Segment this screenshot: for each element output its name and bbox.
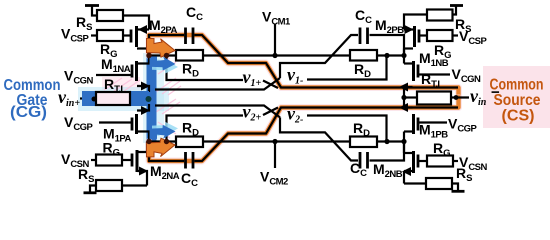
- wire RG to M2PA gate: [123, 34, 131, 36]
- transistor M1PB: [399, 98, 418, 142]
- resistor RD bottom-right: [350, 137, 377, 148]
- junction dots rail A': [146, 139, 151, 144]
- wire VCGN to M1NB gate: [418, 73, 450, 75]
- resistor RS top-left: [97, 10, 123, 21]
- wire RG to M2NB gate: [418, 160, 427, 162]
- resistor RG top-right: [427, 30, 453, 41]
- supply stub top-right: [450, 4, 463, 7]
- wire Cc bottom-left line: [149, 142, 184, 162]
- resistor RG top-left: [97, 30, 123, 41]
- capacitor Cc bottom-right bars: [359, 152, 362, 169]
- resistor RD top-right: [350, 50, 377, 61]
- transistor M1NB: [399, 56, 418, 98]
- svg-text:Source: Source: [494, 92, 541, 109]
- transistor M1NA: [132, 56, 150, 93]
- transistor M2PA: [131, 25, 149, 56]
- wire VCGP to M1PB gate: [418, 121, 447, 123]
- wire VCGP to M1PA gate: [99, 121, 132, 123]
- orange arrow bottom: [147, 138, 176, 157]
- left source line to X rising: [155, 78, 280, 90]
- resistor RG bottom-left: [96, 155, 122, 166]
- wire RG to M2NA gate: [122, 159, 132, 161]
- transistor M1PA: [132, 104, 150, 142]
- resistor RD bottom-left: [176, 137, 203, 148]
- v1+ crossing diagonal down: [263, 81, 278, 89]
- ground bottom-left: [90, 186, 96, 193]
- cyan glow vertical band: [143, 53, 164, 143]
- v2+ crossing diagonal up: [263, 108, 278, 116]
- orange CS highlighted path bottom: [149, 98, 459, 162]
- wire VCM2: [274, 142, 276, 169]
- resistor RG bottom-right: [427, 156, 453, 167]
- svg-text:Common: Common: [490, 77, 544, 94]
- svg-text:(CG): (CG): [10, 104, 47, 121]
- wire VCSP to RG: [453, 34, 459, 36]
- v1+ stub: [167, 56, 244, 81]
- wire VCSN to RG: [91, 159, 96, 161]
- junction dots vin- row: [401, 95, 406, 100]
- wire RS to M2NA source: [122, 184, 147, 186]
- transistor M2PB: [404, 25, 419, 56]
- cyan glow horizontal vin+ row: [78, 87, 169, 111]
- wire VCSP to RG: [91, 34, 97, 36]
- cyan glow under blue arrow bottom: [152, 122, 178, 136]
- v2+ stub: [167, 116, 244, 142]
- capacitor Cc top-right bars: [359, 28, 362, 45]
- wire RG to M2PB gate: [419, 34, 427, 36]
- wire RS to M2NB source: [404, 182, 426, 184]
- v2- to right Cc branch: [280, 117, 358, 160]
- wire Cc top-left line: [149, 35, 184, 56]
- wire vin+ row: [80, 97, 96, 99]
- blue band over wire: [82, 91, 149, 106]
- wire RS to M2PA source: [123, 16, 149, 30]
- v2- wire right: [307, 116, 387, 142]
- junction dots rail A: [146, 53, 151, 58]
- v1- wire right: [307, 56, 387, 80]
- resistor RD top-left: [176, 50, 203, 61]
- junction dots redrawn above arrows: [146, 53, 151, 58]
- wire RS to M2PB source: [404, 15, 427, 30]
- pink hatch region right of blue band: [104, 58, 181, 138]
- resistor RS bottom-left: [96, 180, 122, 191]
- junction dots vin+ row: [92, 97, 97, 102]
- cyan glow under blue arrow top: [152, 60, 178, 74]
- black core wires over orange paths (with cap gaps): [149, 35, 458, 161]
- rail A top (RD common line): [149, 54, 406, 56]
- pink patch behind RTI label left: [102, 77, 140, 90]
- capacitor Cc bottom-left bars: [184, 152, 187, 169]
- resistor RS bottom-right: [426, 178, 452, 189]
- orange CS highlighted path top: [149, 35, 459, 98]
- resistor RS top-right: [427, 10, 453, 21]
- transistor M2NA: [132, 142, 148, 186]
- blue arrow top (CG path out): [150, 57, 176, 71]
- rail A' bottom: [149, 140, 406, 142]
- resistor RTI left: [96, 92, 130, 105]
- wire VCGN to M1NA gate: [96, 74, 132, 76]
- capacitor Cc top-left bars: [184, 28, 187, 45]
- supply stub top-left: [85, 4, 99, 7]
- wire VCM1: [274, 24, 276, 56]
- v1- to right Cc branch: [280, 35, 358, 78]
- resistor RTI right: [417, 92, 451, 105]
- wire vin- row: [404, 96, 417, 98]
- svg-text:(CS): (CS): [502, 108, 535, 125]
- blue highlight band vertical (CG path): [147, 56, 157, 142]
- wire VCSN to RG: [453, 160, 458, 162]
- left source line to X descending: [155, 106, 280, 118]
- blue arrow bottom: [150, 125, 176, 139]
- ground bottom-right: [452, 184, 458, 191]
- transistor M2NB: [402, 142, 418, 184]
- orange arrow top (CS path): [147, 39, 176, 58]
- pink background patch behind CS label: [483, 66, 550, 128]
